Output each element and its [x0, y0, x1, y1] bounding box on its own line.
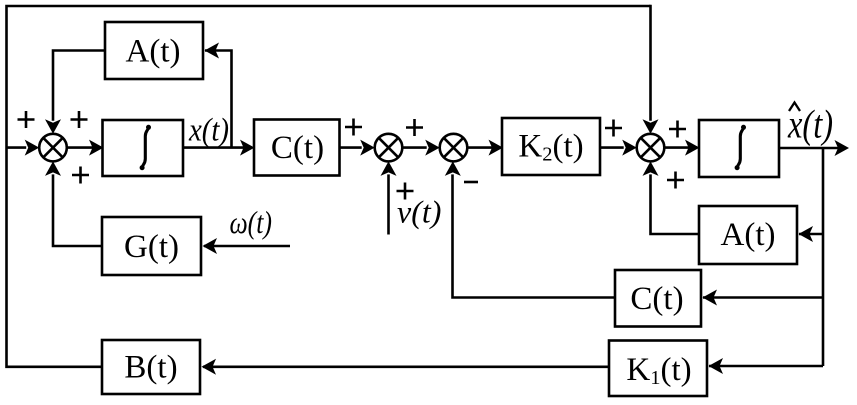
arrow output xhat — [835, 140, 850, 156]
wire: feedback into K1(t) — [709, 365, 823, 368]
arrow into G(t) from right — [203, 238, 218, 254]
wire: A(t) upper feedback output to S1 — [53, 51, 106, 121]
wire: v(t) noise input up to S2 — [387, 174, 390, 234]
wire: A(t) lower output up to S4 — [651, 174, 699, 234]
plus sign S1 left input — [18, 111, 35, 128]
plus sign S2 bottom input v(t) — [397, 183, 414, 200]
arrow into integrator 2 — [685, 140, 700, 156]
svg-text:B(t): B(t) — [124, 350, 177, 386]
svg-text:A(t): A(t) — [126, 34, 181, 70]
plus sign S1 bottom input — [72, 167, 89, 184]
integral sign 1 — [140, 125, 151, 170]
label omega(t) — [230, 204, 273, 240]
wire: S2 output to S3 — [402, 146, 426, 149]
arrow into C(t) lower from right — [703, 290, 718, 306]
arrow into S2 from bottom — [381, 161, 397, 176]
label B(t) — [124, 350, 177, 386]
wire: S3 output to K2(t) — [467, 146, 500, 149]
plus sign S2 left input — [345, 119, 362, 136]
integral sign 2 — [735, 125, 746, 170]
block C(t) lower — [615, 270, 701, 327]
wire: C(t) output to S2 — [340, 146, 362, 149]
wire: x(t) tap up into A(t) upper box — [205, 51, 232, 148]
wire: K2(t) output to S4 — [600, 146, 624, 149]
label K1(t) — [626, 352, 691, 389]
wire: S4 output to integrator 2 — [664, 146, 697, 149]
arrow into C(t) — [240, 140, 255, 156]
arrow into S1 from bottom — [45, 161, 61, 176]
wire: feedback into A(t) lower — [799, 233, 823, 236]
svg-text:ω(t): ω(t) — [230, 204, 273, 240]
plus sign S4 bottom input — [667, 172, 684, 189]
wire: B(t) output along left border and top edge toward S4 — [7, 5, 651, 367]
block K1(t) — [609, 341, 707, 397]
arrow into S4 from bottom — [643, 161, 659, 176]
arrow into A(t) lower from right — [799, 226, 814, 242]
minus sign S3 bottom input — [464, 181, 478, 184]
plus sign S4 top input — [669, 121, 686, 138]
label G(t) — [124, 229, 179, 265]
label C(t) lower — [630, 281, 683, 317]
label xhat(t) — [787, 101, 833, 146]
arrow into S4 from left — [622, 140, 637, 156]
block integrator 2 — [699, 120, 779, 177]
arrow into integrator 1 — [89, 140, 104, 156]
wire: integrator 1 output x(t) to C(t) — [183, 146, 252, 149]
block C(t) middle — [254, 120, 340, 176]
block A(t) upper — [105, 22, 203, 79]
svg-text:v(t): v(t) — [397, 194, 441, 230]
block K2(t) — [502, 118, 600, 175]
svg-text:A(t): A(t) — [721, 217, 776, 253]
svg-text:C(t): C(t) — [630, 281, 683, 317]
svg-text:G(t): G(t) — [124, 229, 179, 265]
wire: integrator 2 output xhat(t) — [779, 147, 846, 150]
plus sign S4 left input — [605, 120, 622, 137]
block integrator 1 — [103, 120, 184, 176]
plus sign S1 top input — [71, 111, 88, 128]
block B(t) — [102, 340, 200, 394]
arrow into S1 from top — [45, 119, 61, 134]
summing junction S4 — [637, 134, 665, 162]
label v(t) — [397, 194, 441, 230]
label A(t) lower — [721, 217, 776, 253]
arrow into A(t) upper from right — [205, 43, 220, 59]
wire: C(t) lower output up to S3 — [453, 174, 616, 297]
arrow into B(t) from right — [202, 359, 217, 375]
summing junction S3 — [440, 134, 468, 162]
summing junction S2 — [375, 134, 403, 162]
wire: K1(t) output to B(t) — [203, 365, 609, 368]
wire: tap from left border into S1 — [7, 146, 27, 149]
wire: omega(t) input to G(t) — [204, 245, 290, 248]
arrow into S4 from top (Bu path) — [643, 119, 659, 134]
arrow into K1(t) from right — [709, 358, 724, 374]
label C(t) middle — [271, 130, 324, 166]
arrow into K2(t) — [489, 140, 504, 156]
label x(t) — [188, 112, 229, 148]
wire: S1 output to integrator 1 — [67, 146, 101, 149]
block A(t) lower — [699, 206, 797, 264]
svg-text:x(t): x(t) — [188, 112, 229, 148]
wire: feedback into C(t) lower — [703, 296, 823, 299]
wire: xhat feedback tap down right side — [822, 148, 825, 366]
arrow into S1 from left — [25, 140, 40, 156]
summing junction S1 — [39, 134, 67, 162]
hat over xhat — [789, 103, 800, 112]
plus sign S3 left input — [406, 119, 423, 136]
arrow into S3 from bottom — [445, 161, 461, 176]
label K2(t) — [518, 129, 583, 166]
arrow into S2 from left — [360, 140, 375, 156]
label A(t) upper — [126, 34, 181, 70]
svg-text:C(t): C(t) — [271, 130, 324, 166]
svg-text:x(t): x(t) — [787, 101, 833, 146]
block G(t) — [102, 217, 201, 275]
wire: G(t) output to S1 — [53, 174, 103, 246]
arrow into S3 from left — [425, 140, 440, 156]
